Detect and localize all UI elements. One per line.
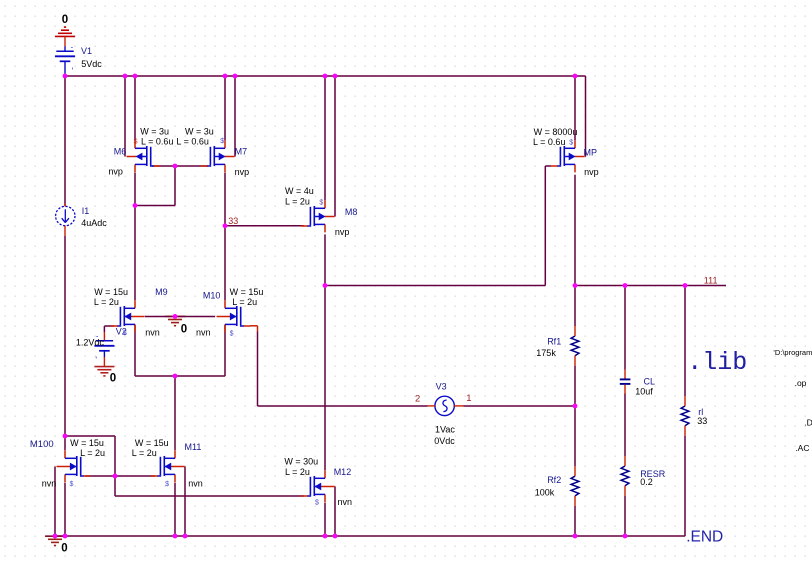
svg-text:1Vac: 1Vac	[435, 424, 455, 434]
svg-text:M12: M12	[334, 467, 352, 477]
svg-text:W = 30u: W = 30u	[284, 457, 318, 467]
svg-text:L = 2u: L = 2u	[94, 297, 119, 307]
svg-text:M8: M8	[345, 207, 358, 217]
svg-text:.op: .op	[795, 378, 807, 388]
svg-text:0: 0	[181, 324, 187, 336]
svg-text:M100: M100	[30, 439, 54, 450]
svg-text:W = 8000u: W = 8000u	[534, 127, 578, 137]
svg-text:175k: 175k	[536, 348, 556, 358]
svg-text:nvn: nvn	[196, 327, 211, 337]
svg-text:nvp: nvp	[584, 167, 599, 177]
svg-text:111: 111	[704, 275, 718, 285]
svg-text:M11: M11	[185, 442, 202, 452]
svg-text:nvn: nvn	[188, 479, 203, 489]
svg-text:'D:\program: 'D:\program	[773, 348, 812, 357]
svg-text:$: $	[319, 199, 323, 206]
svg-text:L = 0.6u: L = 0.6u	[176, 137, 208, 147]
svg-text:1: 1	[466, 393, 471, 404]
svg-text:.AC: .AC	[795, 443, 809, 453]
svg-text:10uf: 10uf	[635, 387, 653, 397]
svg-text:$: $	[230, 330, 234, 337]
svg-text:nvn: nvn	[145, 327, 160, 337]
svg-text:$: $	[123, 330, 127, 337]
svg-text:L = 2u: L = 2u	[132, 448, 157, 458]
svg-text:V1: V1	[81, 46, 92, 56]
svg-text:.lib: .lib	[687, 348, 747, 377]
svg-text:M6: M6	[114, 147, 127, 157]
svg-text:W = 15u: W = 15u	[135, 438, 169, 448]
svg-text:nvp: nvp	[108, 167, 123, 177]
svg-text:0Vdc: 0Vdc	[434, 436, 455, 446]
svg-text:W = 4u: W = 4u	[285, 186, 314, 196]
svg-text:0.2: 0.2	[640, 477, 653, 487]
svg-text:M7: M7	[235, 147, 248, 157]
svg-text:nvp: nvp	[235, 167, 250, 177]
svg-text:$: $	[70, 481, 74, 488]
svg-text:0: 0	[110, 373, 116, 385]
svg-text:I1: I1	[82, 206, 90, 216]
svg-text:33: 33	[228, 216, 238, 226]
svg-text:MP: MP	[584, 147, 598, 157]
svg-text:.DC: .DC	[804, 418, 812, 428]
svg-text:W = 15u: W = 15u	[94, 287, 128, 297]
svg-text:$: $	[220, 138, 224, 145]
svg-text:5Vdc: 5Vdc	[81, 59, 102, 69]
svg-text:1.2Vdc: 1.2Vdc	[76, 337, 105, 347]
svg-text:V3: V3	[436, 382, 447, 392]
svg-text:$: $	[569, 140, 573, 147]
svg-text:$: $	[165, 481, 169, 488]
svg-text:nvp: nvp	[335, 227, 350, 237]
svg-text:0: 0	[62, 14, 68, 26]
svg-text:W = 3u: W = 3u	[140, 127, 169, 137]
svg-text:Rf2: Rf2	[547, 475, 561, 485]
svg-text:M9: M9	[155, 287, 168, 297]
svg-text:,: ,	[71, 62, 73, 71]
svg-text:L = 2u: L = 2u	[285, 467, 310, 477]
svg-text:W = 15u: W = 15u	[70, 438, 104, 448]
svg-text:nvn: nvn	[338, 497, 353, 507]
svg-text:W = 3u: W = 3u	[185, 127, 214, 137]
svg-text:L = 2u: L = 2u	[232, 297, 257, 307]
svg-text:W = 15u: W = 15u	[230, 287, 264, 297]
svg-text:nvn: nvn	[42, 478, 57, 488]
svg-text:.END: .END	[686, 528, 723, 545]
svg-text:$: $	[315, 500, 319, 507]
svg-text:L = 2u: L = 2u	[285, 197, 310, 207]
svg-text:2: 2	[415, 393, 420, 404]
svg-text:0: 0	[61, 542, 67, 554]
svg-text:L = 0.6u: L = 0.6u	[533, 137, 565, 147]
svg-text:$: $	[134, 139, 138, 146]
svg-text:M10: M10	[203, 290, 221, 300]
svg-text:CL: CL	[644, 377, 656, 387]
svg-text:L = 2u: L = 2u	[80, 448, 105, 458]
svg-text:100k: 100k	[535, 488, 555, 498]
svg-text:33: 33	[697, 416, 707, 426]
svg-text:L = 0.6u: L = 0.6u	[141, 137, 173, 147]
svg-text:Rf1: Rf1	[547, 337, 561, 347]
svg-text:4uAdc: 4uAdc	[81, 218, 107, 228]
svg-text:,: ,	[95, 351, 97, 360]
